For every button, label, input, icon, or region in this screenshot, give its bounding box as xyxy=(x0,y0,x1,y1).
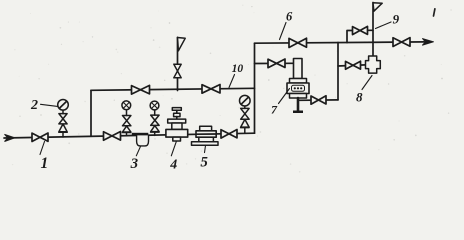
wire: branch to meter 7 xyxy=(255,62,294,64)
purge cock 2 (circle-X on stem) xyxy=(154,131,156,135)
label 10 leader xyxy=(229,75,235,88)
outlet flow arrow xyxy=(423,39,434,46)
label 5 leader xyxy=(205,146,206,153)
valve after meter 7 xyxy=(311,96,326,104)
vent pole (middle purge) xyxy=(177,37,179,90)
svg-text:1: 1 xyxy=(41,155,49,172)
svg-text:9: 9 xyxy=(393,11,400,26)
wire: inlet main line xyxy=(4,133,255,138)
gas meter 5 xyxy=(200,126,212,131)
wire: bypass line 10 xyxy=(91,88,255,90)
wire: purge loop to vent 9 xyxy=(347,30,373,42)
pressure regulator 4 xyxy=(172,108,181,111)
label 1 leader xyxy=(40,142,45,155)
filter 3 xyxy=(132,133,149,136)
svg-text:2: 2 xyxy=(30,98,38,113)
wire: riser junction node 10 to header xyxy=(254,43,256,133)
purge valve 9 xyxy=(353,26,368,34)
label 6 leader xyxy=(280,23,287,40)
wire: meter 7 outlet xyxy=(300,99,339,101)
purge valve on vent pole xyxy=(174,64,181,78)
wire: vent pole 9 xyxy=(372,3,374,57)
valve on main line after riser xyxy=(104,132,121,141)
svg-text:6: 6 xyxy=(286,10,293,24)
label 9 leader xyxy=(376,22,392,29)
valve 6 on header xyxy=(289,38,307,47)
vent flag 9 xyxy=(373,3,382,11)
scan speck top right xyxy=(434,9,435,16)
pressure gauge 2 xyxy=(58,100,69,111)
label 8 leader xyxy=(362,76,372,90)
svg-text:3: 3 xyxy=(130,156,139,172)
valve before meter 7 xyxy=(268,59,285,68)
filter 8 (cross fitting) xyxy=(366,56,381,73)
vent flag (middle purge) xyxy=(178,38,186,51)
wire: riser from meter loop xyxy=(337,43,339,100)
svg-text:7: 7 xyxy=(271,103,278,117)
valve 1 xyxy=(32,133,48,142)
svg-text:4: 4 xyxy=(169,158,177,173)
purge cock 1 (circle-X on stem) xyxy=(126,132,128,136)
outlet valve xyxy=(393,38,410,47)
svg-text:8: 8 xyxy=(356,90,363,105)
label 3 leader xyxy=(136,146,140,156)
valve on bypass line 10 (left) xyxy=(132,85,150,94)
svg-text:5: 5 xyxy=(200,155,208,171)
label 2 leader xyxy=(41,104,58,106)
wire: branch to filter 8 xyxy=(338,65,366,66)
svg-text:10: 10 xyxy=(232,63,244,75)
pressure gauge cock (under gauge 2) xyxy=(62,133,64,137)
valve before filter 8 xyxy=(346,61,361,69)
outlet pressure gauge xyxy=(240,95,251,106)
wire: bypass left riser xyxy=(90,90,92,136)
valve after meter 5 xyxy=(221,130,237,139)
inlet flow arrow xyxy=(5,135,15,142)
outlet pressure gauge cock xyxy=(244,129,246,134)
wire: outlet header line xyxy=(255,42,425,43)
label 7 leader xyxy=(279,89,290,104)
gas meter 7 xyxy=(294,59,303,79)
valve on bypass line 10 (right) xyxy=(202,85,220,94)
label 4 leader xyxy=(171,142,176,156)
